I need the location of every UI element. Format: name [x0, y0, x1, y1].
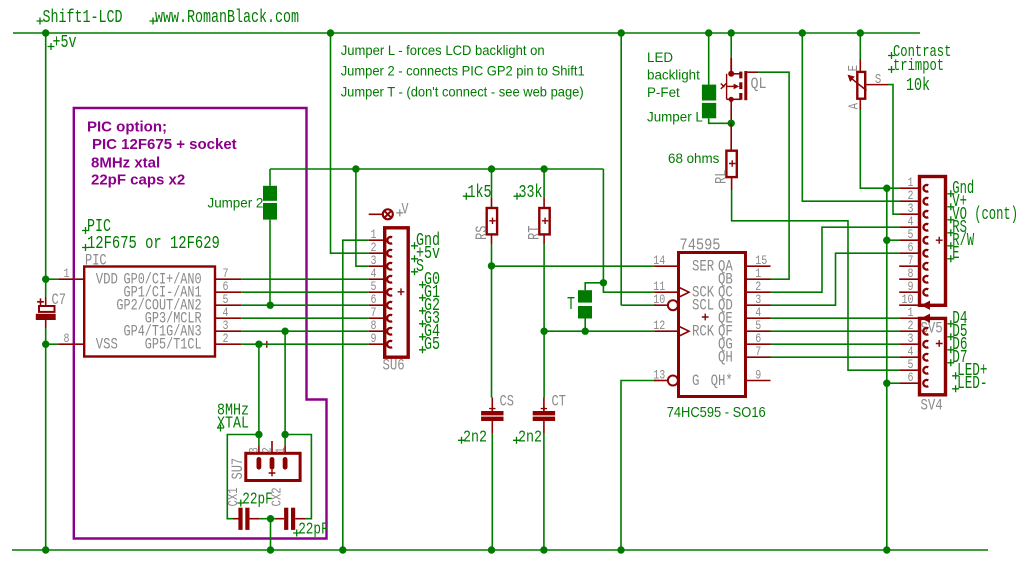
wire RS top — [491, 169, 493, 198]
junction VSS — [42, 341, 49, 348]
wire xtal left to CX1 — [227, 435, 259, 519]
origin cross G1 — [419, 294, 426, 301]
origin cross url — [150, 18, 157, 25]
junction LED- Gnd — [883, 380, 890, 387]
svg-text:XTAL: XTAL — [217, 415, 249, 434]
svg-text:2n2: 2n2 — [518, 429, 542, 448]
svg-text:C7: C7 — [52, 291, 66, 309]
svg-text:9: 9 — [371, 331, 377, 346]
74595 pin 2 QC — [746, 291, 771, 293]
SU6 pin 8 — [369, 330, 385, 332]
wire CS to ground rail — [491, 433, 493, 550]
SU6 crossed-circle pin — [369, 213, 383, 215]
connector SV4 body — [920, 318, 946, 394]
svg-text:22pF: 22pF — [242, 491, 272, 510]
svg-text:22pF caps x2: 22pF caps x2 — [91, 172, 185, 189]
junction R/W Gnd — [883, 237, 890, 244]
junction top rail x621 — [618, 29, 625, 36]
wire trimpot A to Gnd pin — [860, 110, 899, 188]
74595 pin 5 QF — [746, 330, 771, 332]
socket SU7 body — [258, 446, 260, 453]
svg-text:Jumper L: Jumper L — [647, 110, 703, 125]
SU7 origin cross — [269, 470, 276, 477]
connector SV5 body — [920, 177, 946, 306]
svg-text:33k: 33k — [519, 183, 543, 203]
IC 74595 body — [679, 253, 746, 397]
junction bottom rail x342 — [339, 546, 346, 553]
wire RCK net — [544, 330, 654, 332]
svg-text:A: A — [846, 103, 862, 110]
wire to SU7 pin1 — [284, 435, 286, 447]
origin cross G2 — [419, 307, 426, 314]
junction GP4 — [281, 328, 288, 335]
wire +5v to 74595 SCL — [620, 33, 622, 305]
svg-text:VDD: VDD — [96, 271, 118, 289]
wire jumper2 bottom to GP2 net — [269, 220, 271, 306]
svg-text:QH*: QH* — [711, 372, 733, 390]
wire from C7 bottom — [45, 328, 47, 344]
wire VDD to rail — [46, 278, 59, 280]
junction jumperT/RCK — [582, 328, 589, 335]
PIC pin 1 VDD stub — [58, 278, 84, 280]
origin cross G3 — [419, 320, 426, 327]
capacitor CX1 — [233, 518, 240, 520]
origin cross D7 — [947, 359, 954, 366]
wire left +5v vertical — [45, 33, 47, 279]
svg-text:Jumper T - (don't connect - se: Jumper T - (don't connect - see web page… — [341, 83, 584, 99]
junction GP5 — [255, 341, 262, 348]
SU7 pin2 stub (n.c.) — [271, 441, 273, 453]
74595 pin 12 RCK — [654, 330, 678, 332]
74595 pin 15 QA — [746, 265, 771, 267]
capacitor CS plates — [481, 411, 503, 415]
svg-text:T: T — [567, 295, 575, 315]
wire GP5 to crystal — [258, 344, 260, 434]
wire xtal right to CX2 — [285, 435, 311, 519]
wire QE to D4 — [771, 317, 900, 319]
svg-text:Jumper L - forces LCD backligh: Jumper L - forces LCD backlight on — [341, 42, 545, 58]
wire G4 net — [241, 330, 369, 332]
wire ground bottom rail — [12, 549, 988, 551]
svg-text:+5v: +5v — [53, 33, 77, 53]
SU6 pin 4 — [369, 278, 385, 280]
PIC IC U-12F675 body — [84, 267, 215, 357]
wire RL to LED+ pin — [732, 190, 900, 370]
svg-text:SV4: SV4 — [921, 397, 943, 415]
wire S to SU6 pin3 — [356, 169, 369, 266]
svg-text:G: G — [692, 372, 699, 390]
origin cross 22pF CX2 — [293, 530, 300, 537]
origin cross G5 — [419, 346, 426, 353]
svg-text:10k: 10k — [906, 76, 930, 96]
PIC pin 6 stub — [215, 291, 241, 293]
SV5 origin cross — [936, 237, 943, 244]
SU6 pin 6 — [369, 304, 385, 306]
svg-text:QH: QH — [718, 349, 733, 367]
junction top rail x802 — [799, 29, 806, 36]
svg-text:12: 12 — [653, 318, 665, 333]
SV4 origin cross — [936, 340, 943, 347]
svg-text:1k5: 1k5 — [468, 183, 492, 203]
svg-text:LED: LED — [647, 50, 673, 65]
svg-text:2: 2 — [223, 331, 229, 346]
origin cross RS — [947, 229, 954, 236]
svg-text:www.RomanBlack.com: www.RomanBlack.com — [155, 8, 299, 28]
junction S net — [600, 279, 607, 286]
SV5 pin 8 — [899, 278, 919, 280]
wire S net horizontal — [270, 168, 603, 170]
resistor RL 68ohms — [726, 151, 736, 177]
svg-text:74595: 74595 — [680, 236, 721, 255]
wire S to jumper2 top — [269, 169, 271, 186]
wire G2 net — [241, 304, 369, 306]
origin cross trimpot — [888, 66, 895, 73]
junction bottom rail x886 — [883, 546, 890, 553]
PIC pin 2 stub — [215, 343, 241, 345]
SV5 pin 10 — [899, 304, 919, 306]
origin cross V+ — [947, 203, 954, 210]
svg-text:SU7: SU7 — [229, 458, 247, 480]
svg-text:PIC: PIC — [85, 252, 107, 270]
wire QB to QL gate — [758, 72, 789, 279]
74595 pin 13 G — [654, 380, 668, 382]
wire +5v top rail — [13, 32, 920, 34]
junction bottom rail x45 — [42, 546, 49, 553]
wire RT bottom — [543, 244, 545, 331]
wire R/W to Gnd — [887, 239, 899, 241]
svg-text:LED-: LED- — [957, 374, 987, 394]
wire jumperT bottom to RCK — [584, 319, 586, 332]
junction S/SU6pin3 — [352, 165, 359, 172]
svg-text:P-Fet: P-Fet — [647, 85, 680, 100]
origin cross VO (cont) — [947, 216, 954, 223]
junction CX mid — [267, 515, 274, 522]
svg-text:22pF: 22pF — [298, 521, 328, 540]
origin cross Contrast — [888, 52, 895, 59]
wire QD to E pin — [771, 253, 900, 305]
svg-text:9: 9 — [755, 368, 761, 383]
svg-text:E: E — [846, 65, 862, 71]
origin cross R/W — [947, 242, 954, 249]
wire VSS to rail — [46, 343, 59, 345]
SV5 pin 3 — [899, 213, 919, 215]
origin cross S — [411, 268, 418, 275]
svg-text:GP5/T1CL: GP5/T1CL — [145, 336, 202, 354]
svg-text:14: 14 — [653, 253, 665, 268]
purple PIC-option outline box — [74, 108, 327, 539]
wire G5 net — [241, 343, 369, 345]
svg-text:Jumper 2 - connects PIC GP2 pi: Jumper 2 - connects PIC GP2 pin to Shift… — [341, 63, 585, 79]
origin cross 2n2 CT — [513, 437, 520, 444]
origin cross G0 — [419, 281, 426, 288]
SU6 pin 9 — [369, 343, 385, 345]
PIC origin cross — [263, 341, 270, 348]
svg-text:RT: RT — [525, 226, 543, 240]
wire RT top — [543, 169, 545, 198]
svg-text:CS: CS — [500, 393, 514, 411]
junction bottom rail x543 — [540, 546, 547, 553]
wire +5v to SU6 pin2 — [331, 33, 369, 253]
svg-text:SCL: SCL — [692, 297, 714, 315]
connector SU6 body — [385, 228, 409, 357]
wire SU6 pin1 to ground — [343, 240, 369, 550]
origin cross LED+ — [952, 372, 959, 379]
wire G1 net — [241, 291, 369, 293]
svg-text:8MHz xtal: 8MHz xtal — [91, 155, 160, 172]
wire QL drain to RL — [730, 123, 732, 150]
origin cross E — [947, 255, 954, 262]
PIC pin 3 stub — [215, 330, 241, 332]
origin cross PIC — [82, 227, 89, 234]
wire into SCL — [621, 304, 656, 306]
SV4 pin 6 — [899, 382, 919, 384]
origin cross G4 — [419, 333, 426, 340]
wire +5v to QL source — [730, 33, 732, 58]
svg-text:E: E — [952, 244, 959, 264]
junction Gnd pin1 — [883, 185, 890, 192]
SV5 pin 4 — [899, 226, 919, 228]
junction QL drain/RL — [728, 120, 735, 127]
junction bottom rail x270 — [267, 546, 274, 553]
wire CX1 to mid — [259, 518, 271, 520]
svg-text:RS: RS — [473, 226, 491, 240]
wire LED- to Gnd — [887, 382, 899, 384]
svg-text:7: 7 — [755, 344, 761, 359]
svg-text:SER: SER — [692, 258, 714, 276]
junction top rail x731 — [728, 29, 735, 36]
origin cross +5v — [411, 255, 418, 262]
svg-text:68 ohms: 68 ohms — [668, 151, 720, 166]
resistor RS 1k5 — [487, 208, 497, 234]
junction VDD — [42, 276, 49, 283]
origin cross 12F675 — [82, 244, 89, 251]
origin cross 2n2 — [458, 437, 465, 444]
wire trimpot S to VO — [888, 85, 899, 215]
wire QF to D5 — [771, 330, 900, 332]
jumper J2 pads — [263, 186, 277, 201]
SV4 pin 1 — [899, 317, 919, 319]
svg-text:1: 1 — [273, 447, 288, 453]
svg-text:13: 13 — [653, 368, 665, 383]
wire +5v to trimpot E — [859, 33, 861, 59]
SV4 pin 3 — [899, 343, 919, 345]
PIC pin 5 stub — [215, 304, 241, 306]
wire down to CS — [491, 266, 493, 398]
junction xtal left — [255, 431, 262, 438]
SV5 pin 2 — [899, 200, 919, 202]
74595 pin 6 QG — [746, 343, 771, 345]
junction top rail x330 — [327, 29, 334, 36]
74595 pin 1 QB — [746, 278, 771, 280]
74595 origin cross — [702, 314, 709, 321]
junction S/RT — [540, 165, 547, 172]
junction GP2/jumper2 — [267, 302, 274, 309]
SU6 pin 5 — [369, 291, 385, 293]
wire Gnd vertical right — [886, 188, 888, 550]
74595 pin 9 QH* — [746, 380, 771, 382]
svg-text:74HC595 - SO16: 74HC595 - SO16 — [667, 405, 766, 421]
SV5 pin 9 — [899, 291, 919, 293]
wire left ground vertical — [45, 344, 47, 550]
origin cross Gnd — [947, 190, 954, 197]
svg-text:1: 1 — [64, 266, 70, 281]
wire RS bottom — [491, 244, 493, 266]
wire GP4 to crystal — [284, 331, 286, 434]
svg-text:trimpot: trimpot — [893, 57, 944, 76]
origin cross title — [37, 18, 44, 25]
svg-text:QL: QL — [751, 75, 767, 93]
PIC pin 4 stub — [215, 317, 241, 319]
wire CX mid to ground — [270, 519, 272, 550]
svg-text:PIC 12F675 + socket: PIC 12F675 + socket — [92, 136, 237, 153]
origin cross 33k — [514, 193, 521, 200]
wire +5v to V+ pin — [802, 33, 899, 201]
SV5 pin 1 — [899, 187, 919, 189]
junction RCK/RT/CT — [540, 328, 547, 335]
svg-text:S: S — [416, 257, 424, 277]
SU6 pin 3 — [369, 265, 385, 267]
wire CT to ground rail — [543, 433, 545, 550]
svg-text:CT: CT — [552, 393, 566, 411]
SV4 pin 2 — [899, 330, 919, 332]
junction S/RS — [488, 165, 495, 172]
capacitor CT plates — [533, 411, 555, 415]
svg-text:RCK: RCK — [692, 323, 715, 341]
capacitor CS — [491, 398, 493, 412]
SU6 pin 7 — [369, 317, 385, 319]
origin cross D6 — [947, 346, 954, 353]
PIC pin 7 stub — [215, 278, 241, 280]
svg-text:Jumper 2: Jumper 2 — [208, 196, 264, 211]
resistor RT 33k — [539, 208, 549, 234]
wire QH to D7 — [771, 356, 900, 358]
svg-text:8: 8 — [64, 331, 70, 346]
wire S net down right — [602, 169, 604, 283]
origin cross 22pF CX1 — [237, 500, 244, 507]
wire SER net to 74595 pin14 — [492, 265, 655, 267]
svg-text:6: 6 — [908, 370, 914, 385]
svg-text:12F675 or 12F629: 12F675 or 12F629 — [87, 234, 220, 254]
svg-text:VSS: VSS — [96, 336, 118, 354]
wire S to 74595 SCK — [603, 283, 654, 292]
origin cross D5 — [947, 333, 954, 340]
junction SER/RS/CS — [488, 262, 495, 269]
svg-text:CX2: CX2 — [270, 487, 286, 506]
74595 pin 3 QD — [746, 304, 771, 306]
junction xtal right — [281, 431, 288, 438]
74595 pin 14 SER — [654, 265, 678, 267]
origin cross XTAL — [217, 425, 224, 432]
origin cross +5v — [48, 43, 55, 50]
SV5 pin 5 — [899, 239, 919, 241]
capacitor C7 — [45, 297, 47, 306]
svg-text:RL: RL — [713, 170, 731, 184]
origin cross Gnd — [411, 242, 418, 249]
wire S to jumper T top — [585, 283, 603, 290]
svg-text:V: V — [402, 201, 410, 219]
SU6 pin 2 — [369, 252, 385, 254]
wire to SU7 pin3 — [258, 435, 260, 447]
wire G0 net — [241, 278, 369, 280]
capacitor CT — [543, 398, 545, 412]
svg-text:G5: G5 — [424, 335, 440, 355]
SV4 pin 5 — [899, 369, 919, 371]
74595 pin 4 QE — [746, 317, 771, 319]
svg-text:SU6: SU6 — [383, 357, 405, 375]
SV5 pin 6 — [899, 252, 919, 254]
origin cross 1k5 — [463, 193, 470, 200]
svg-text:10: 10 — [653, 292, 665, 307]
grey origin cross — [396, 209, 403, 216]
SU6 pin 1 — [369, 239, 385, 241]
74595 pin 11 SCK — [654, 291, 678, 293]
origin cross D4 — [947, 320, 954, 327]
wire 74595 G to ground — [621, 381, 656, 551]
svg-text:Shift1-LCD: Shift1-LCD — [43, 8, 123, 28]
wire G3 net — [241, 317, 369, 319]
junction top rail x860 — [857, 29, 864, 36]
jumper JT pads — [578, 290, 592, 302]
wire QG to D6 — [771, 343, 900, 345]
junction bottom rail x491 — [488, 546, 495, 553]
wire +5v to jumperL — [708, 33, 710, 85]
SV4 pin 4 — [899, 356, 919, 358]
junction bottom rail x621 — [617, 546, 624, 553]
svg-text:S: S — [875, 72, 881, 88]
74595 pin 10 SCL — [654, 304, 668, 306]
wire QC to RS pin — [771, 227, 900, 292]
wire to C7 top — [45, 279, 47, 297]
wire jumperL to QL drain — [709, 118, 732, 123]
origin cross LED- — [952, 385, 959, 392]
svg-text:PIC option;: PIC option; — [87, 119, 167, 136]
svg-text:backlight: backlight — [647, 68, 700, 83]
PIC pin 8 VSS stub — [58, 343, 84, 345]
74595 pin 7 QH — [746, 356, 771, 358]
junction top rail x45 — [42, 29, 49, 36]
wire mid to CX2 — [271, 518, 276, 520]
wire down to CT — [543, 331, 545, 397]
svg-text:2n2: 2n2 — [463, 429, 487, 448]
junction top rail x708 — [705, 29, 712, 36]
SU6 origin cross — [398, 288, 405, 295]
SV5 pin 7 — [899, 265, 919, 267]
